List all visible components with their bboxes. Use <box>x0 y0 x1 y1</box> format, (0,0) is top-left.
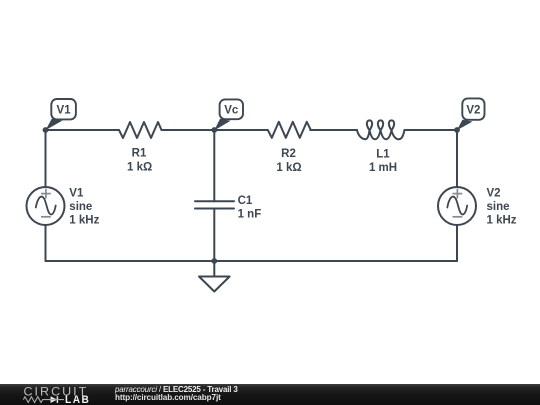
wire: V2 node down to source V2 <box>456 130 458 187</box>
voltage source V2 (sine) <box>438 187 476 225</box>
svg-text:Vc: Vc <box>224 105 239 117</box>
svg-text:LAB: LAB <box>65 394 90 405</box>
wire: Vc node down to C1 <box>213 130 215 201</box>
inductor L1 <box>357 120 405 139</box>
node junction dot V1 <box>43 127 49 133</box>
svg-text:1 kΩ: 1 kΩ <box>127 161 152 173</box>
wire: bottom rail <box>46 260 458 262</box>
wire: Vc node to R2 <box>214 129 267 131</box>
svg-text:V2: V2 <box>466 104 480 116</box>
wire: L1 to V2 node <box>405 129 458 131</box>
svg-text:1 kHz: 1 kHz <box>69 215 99 227</box>
svg-text:http://circuitlab.com/cabp7jt: http://circuitlab.com/cabp7jt <box>115 393 221 402</box>
node junction dot Vc <box>211 127 217 133</box>
CircuitLab logo resistor zigzag <box>23 397 47 403</box>
svg-text:L1: L1 <box>376 149 390 161</box>
wire: R1 to Vc node <box>162 129 215 131</box>
wire: ground stub <box>213 261 215 277</box>
node junction dot V2 <box>454 127 460 133</box>
wire: V1 node down to source V1 <box>45 130 47 187</box>
svg-text:C1: C1 <box>238 195 253 207</box>
resistor R1 <box>119 122 162 138</box>
svg-text:sine: sine <box>69 201 92 213</box>
node flag V1 <box>46 99 76 130</box>
node flag V2 <box>457 98 485 130</box>
svg-text:R1: R1 <box>132 148 147 160</box>
svg-text:1 kΩ: 1 kΩ <box>276 162 301 174</box>
svg-text:1 kHz: 1 kHz <box>487 215 517 227</box>
wire: source V2 down to bottom rail <box>456 225 458 261</box>
wire: R2 to L1 <box>310 129 357 131</box>
ground symbol <box>199 277 230 292</box>
CircuitLab logo diode <box>48 396 65 403</box>
node flag Vc <box>214 99 243 130</box>
wire top: V1 node to R1 <box>46 129 120 131</box>
svg-text:1 mH: 1 mH <box>369 162 397 174</box>
resistor R2 <box>268 122 311 138</box>
svg-text:V1: V1 <box>57 105 72 117</box>
svg-text:1 nF: 1 nF <box>238 208 262 220</box>
voltage source V1 (sine) <box>27 187 65 225</box>
svg-text:V1: V1 <box>69 187 84 199</box>
capacitor C1 <box>195 201 234 208</box>
wire: source V1 down to bottom rail <box>45 225 47 261</box>
wire: C1 down to bottom rail <box>213 209 215 262</box>
svg-text:R2: R2 <box>281 148 296 160</box>
svg-text:V2: V2 <box>487 187 501 199</box>
svg-text:sine: sine <box>487 201 510 213</box>
node junction dot ground <box>211 258 217 264</box>
footer bar <box>0 384 540 405</box>
